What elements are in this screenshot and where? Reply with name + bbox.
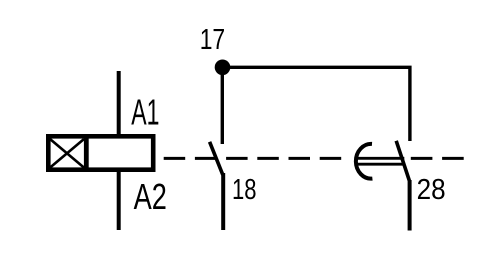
svg-text:A2: A2 <box>134 176 167 217</box>
wire 17 drop <box>221 67 224 144</box>
coil X diagonal 1 <box>50 139 84 168</box>
delay symbol lower bar <box>357 163 404 166</box>
contact 28 blade <box>396 141 409 181</box>
wire top link <box>223 67 410 141</box>
delay symbol upper bar <box>357 157 404 160</box>
node 17 dot <box>215 60 231 76</box>
linkage dashed line right <box>411 157 465 160</box>
svg-text:17: 17 <box>200 24 226 56</box>
wire 28 bottom <box>408 180 412 231</box>
wire A1 <box>117 71 121 136</box>
svg-text:18: 18 <box>232 174 257 206</box>
delay symbol arc <box>356 144 373 179</box>
contact 17-18 blade <box>210 142 223 175</box>
svg-text:28: 28 <box>417 174 446 206</box>
wire 18 bottom <box>221 173 225 230</box>
linkage dashed line left <box>164 157 345 160</box>
coil K1 box <box>48 136 153 169</box>
wire A2 <box>117 170 121 230</box>
coil X diagonal 2 <box>50 139 84 168</box>
svg-text:A1: A1 <box>131 91 159 132</box>
coil divider <box>84 134 89 172</box>
